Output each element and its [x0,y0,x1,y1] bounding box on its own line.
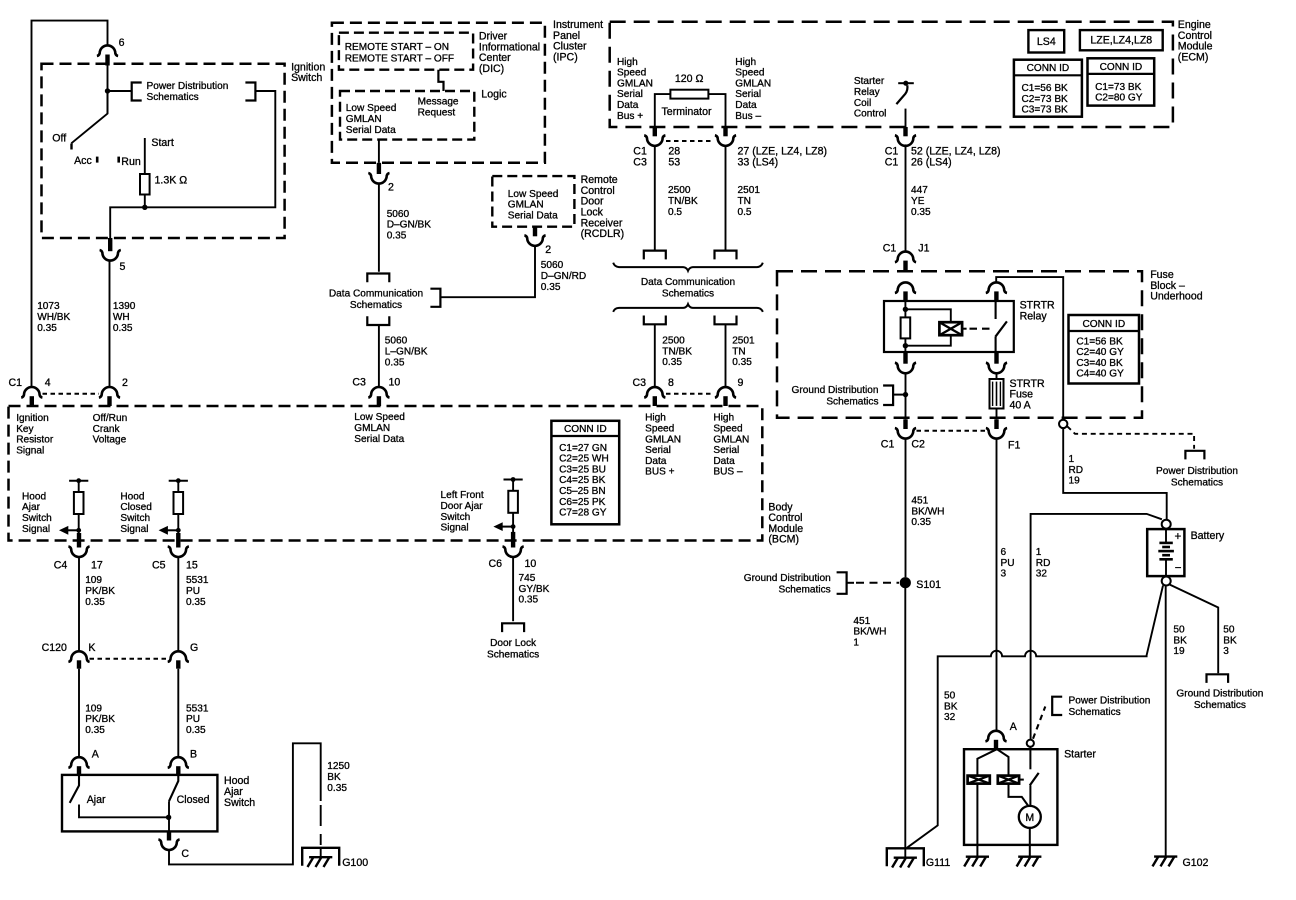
svg-text:Ground Distribution: Ground Distribution [792,385,879,396]
wire battery negative to starter rail with hops [907,586,1163,848]
wire label 50 BK 19 [1173,624,1187,657]
svg-text:G111: G111 [926,857,950,869]
svg-text:F1: F1 [1008,440,1020,452]
svg-text:Hood: Hood [22,491,46,502]
message request label [418,97,459,119]
svg-text:Hood: Hood [120,491,144,502]
svg-text:447: 447 [911,185,928,196]
wire 109 PK/BK upper segment [78,558,80,652]
ignition key resistor signal label [16,413,54,456]
svg-text:0.35: 0.35 [385,357,405,368]
svg-text:32: 32 [1036,569,1048,580]
svg-text:Battery: Battery [1191,530,1225,542]
hood ajar switch signal pull-up resistor and arrow [22,478,88,544]
connector C6 pin 10 (BCM bottom) [488,532,536,570]
svg-text:Schematics: Schematics [662,289,714,300]
svg-text:0.35: 0.35 [519,595,539,606]
connector pin C (hood ajar switch) [158,831,189,860]
svg-text:3: 3 [1001,569,1007,580]
svg-text:4: 4 [45,377,51,389]
svg-text:BK/WH: BK/WH [853,627,886,638]
battery negative terminal circle [1162,577,1171,586]
svg-text:5060: 5060 [385,336,408,347]
svg-text:C3: C3 [633,157,647,169]
svg-text:0.35: 0.35 [387,230,407,241]
svg-text:Starter: Starter [1064,748,1096,760]
ground distribution schematics label (50 BK 3) [1176,689,1263,712]
svg-text:High: High [713,413,734,424]
engine control module dashed box [610,22,1173,127]
svg-text:CONN ID: CONN ID [1100,62,1143,73]
connector pin 9 (BCM high speed -) [715,377,744,406]
relay mechanical link dashed [970,328,992,330]
svg-text:(RCDLR): (RCDLR) [581,228,625,240]
connector C5 pin 15 (BCM bottom) [152,533,198,571]
svg-text:C2=73 BK: C2=73 BK [1022,94,1069,105]
svg-text:A: A [92,749,100,761]
wire label 2501 TN 0.35 [732,335,755,368]
wire 451 BK/WH lower segment to G111 [904,588,906,848]
connector pin 5 (ignition switch) [100,238,126,273]
high speed GMLAN serial data bus - label (ECM) [735,57,771,122]
svg-text:GY/BK: GY/BK [519,584,550,595]
connector C3 pin 8 (BCM high speed +) [632,377,674,406]
svg-text:GMLAN: GMLAN [617,78,653,89]
starter case ground (motor) [1017,857,1042,867]
svg-text:Door Lock: Door Lock [490,638,537,649]
fuse block bottom connector dashed link [917,430,987,432]
wire 5060 L-GN/BK [378,325,380,387]
svg-text:GMLAN: GMLAN [354,423,390,434]
high speed GMLAN serial data BUS + label (BCM) [645,413,681,478]
svg-text:Switch: Switch [120,513,150,524]
svg-text:0.5: 0.5 [738,207,752,218]
svg-text:Voltage: Voltage [93,435,127,446]
wire label 1390 WH 0.35 [113,301,136,334]
svg-text:53: 53 [668,157,680,169]
wire label 109 PK/BK 0.35 (lower) [85,703,115,736]
Run contact tick [117,156,140,168]
svg-text:Signal: Signal [120,524,148,535]
svg-text:C6=25 PK: C6=25 PK [559,497,606,508]
svg-text:BK/WH: BK/WH [911,506,944,517]
svg-text:PU: PU [186,586,200,597]
svg-text:C1: C1 [9,377,23,389]
svg-text:Closed: Closed [120,502,151,513]
svg-text:Closed: Closed [177,794,210,806]
svg-text:GMLAN: GMLAN [508,200,544,211]
svg-text:RD: RD [1036,558,1051,569]
connector C4 pin 17 (BCM bottom) [54,533,103,571]
driver informational center dashed box [339,33,473,70]
svg-text:PK/BK: PK/BK [85,586,115,597]
ground G100 [302,848,368,869]
svg-text:Key: Key [16,424,34,435]
svg-text:451: 451 [853,616,870,627]
wire 2500 TN/BK 0.5 segment [654,147,656,251]
off/run crank voltage label [93,413,128,446]
wire 1 RD 32 from battery positive [1031,514,1162,740]
Logic label [481,88,507,100]
terminator resistor 120 ohm [655,73,726,127]
wire junction to power distribution bracket [108,90,132,92]
wire 50 BK 3 branch [1170,585,1229,683]
svg-text:Run: Run [121,156,141,168]
svg-text:Starter: Starter [854,76,885,87]
svg-text:6: 6 [119,37,125,49]
wire 2501 TN 0.5 segment [725,147,727,251]
wire label 5060 D-GN/BK 0.35 [387,209,432,242]
wire from battery feed to ignition switch pin 6 [32,21,108,387]
wire 1390 WH from pin 5 to BCM pin 2 [109,261,111,387]
connector pin A (hood ajar switch) [68,749,99,775]
starter case ground (pull-in coil) [964,857,989,867]
svg-text:0.35: 0.35 [732,357,752,368]
STRTR fuse 40A [990,374,1045,419]
relay feed elbow to right rail [996,277,1063,419]
svg-text:(IPC): (IPC) [553,52,578,64]
svg-text:PU: PU [1001,558,1015,569]
junction node at ignition feed [105,88,110,93]
svg-text:0.35: 0.35 [85,597,105,608]
splice S101 [900,577,941,591]
svg-text:Speed: Speed [617,68,646,79]
node circle on starter B+ wire [1027,740,1034,747]
svg-text:Data Communication: Data Communication [641,277,735,288]
svg-text:C1: C1 [881,438,895,450]
svg-text:3: 3 [1223,646,1229,657]
svg-text:Door Ajar: Door Ajar [441,501,484,512]
connector C1 pin 52/26 (ECM starter relay control) [885,127,1001,169]
svg-text:50: 50 [1173,624,1185,635]
wire label 451 BK/WH 0.35 [911,496,944,529]
hood ajar switch contact Closed [169,775,210,832]
svg-text:BK: BK [327,772,341,783]
svg-text:−: − [1175,561,1182,574]
low speed GMLAN serial data label (RCDLR) [508,189,559,222]
connector pin 2 (BCM) [99,377,128,406]
svg-text:1073: 1073 [37,301,60,312]
svg-text:TN/BK: TN/BK [668,196,698,207]
svg-text:G: G [190,642,198,654]
svg-text:D–GN/RD: D–GN/RD [541,271,586,282]
svg-text:Switch: Switch [441,512,471,523]
svg-text:C5: C5 [152,559,166,571]
svg-text:32: 32 [944,712,956,723]
svg-text:5060: 5060 [387,209,410,220]
connector pin B (hood ajar switch) [168,749,197,775]
svg-text:Coil: Coil [854,98,871,109]
svg-text:Off: Off [52,132,66,144]
BCM label [768,501,803,545]
svg-text:5060: 5060 [541,260,564,271]
svg-text:Low Speed: Low Speed [346,103,397,114]
junction node below 1.3K resistor [142,205,147,210]
battery positive terminal circle [1162,520,1171,529]
ECM connector dashed link [666,140,714,142]
svg-text:Data: Data [713,456,735,467]
svg-text:TN: TN [738,196,751,207]
wire 5060 D-GN/BK [378,184,380,271]
connector pin 2 (RCDLR) [524,227,551,256]
high speed GMLAN serial data bus + label (ECM) [617,57,653,122]
svg-text:C3=25 BU: C3=25 BU [559,464,606,475]
connector C1/C2 (fuse block bottom) [881,419,925,450]
LS4 box [1028,30,1064,52]
resistor 1.3K ohm (ignition key resistor) [140,174,187,207]
svg-text:Ground Distribution: Ground Distribution [1176,689,1263,700]
connector C1 pin J1 [883,242,930,271]
wire label 2500 TN/BK 0.35 [662,335,692,368]
svg-text:G102: G102 [1183,857,1209,869]
svg-text:(BCM): (BCM) [768,534,799,546]
svg-text:10: 10 [389,377,401,389]
svg-text:Signal: Signal [441,523,469,534]
svg-text:WH: WH [113,312,130,323]
svg-text:(ECM): (ECM) [1178,52,1209,64]
svg-text:BK: BK [1173,635,1187,646]
left front door ajar switch signal pull-up resistor and arrow [441,477,523,540]
junction node in hood ajar switch [166,815,171,820]
svg-text:TN/BK: TN/BK [662,346,692,357]
svg-text:0.35: 0.35 [327,783,347,794]
svg-text:2500: 2500 [662,335,685,346]
power distribution schematics reference brackets (ignition) [132,81,256,103]
svg-text:RD: RD [1069,465,1084,476]
svg-text:Ignition: Ignition [16,413,49,424]
ground distribution schematics reference (fuse block) [792,385,909,408]
wire label 5531 PU 0.35 (upper) [186,575,209,608]
starter relay coil control label [854,76,887,119]
svg-text:(DIC): (DIC) [479,63,504,75]
svg-text:CONN ID: CONN ID [564,424,607,435]
connector F1 (fuse block bottom) [986,419,1021,451]
svg-text:C4=25 BK: C4=25 BK [559,475,606,486]
wire label 2501 TN 0.5 [738,185,761,218]
svg-text:Power Distribution: Power Distribution [147,81,229,92]
wire label 2500 TN/BK 0.5 [668,185,698,218]
remote control door lock receiver dashed box [492,176,574,227]
svg-text:109: 109 [85,703,102,714]
svg-text:C2=40 GY: C2=40 GY [1076,347,1124,358]
wire label 1073 WH/BK 0.35 [37,301,70,334]
svg-text:C3: C3 [632,377,646,389]
STRTR relay box [884,301,1014,352]
wire 5060 D-GN/RD [440,247,535,298]
wire from pin C to ground G100 route [169,743,321,864]
svg-text:19: 19 [1069,476,1081,487]
svg-text:C2: C2 [911,438,925,450]
svg-text:High: High [735,57,756,68]
svg-text:Start: Start [151,137,173,149]
fuse block underhood dashed box [777,271,1142,418]
svg-text:GMLAN: GMLAN [735,78,771,89]
svg-text:1.3K Ω: 1.3K Ω [155,174,188,186]
svg-text:2501: 2501 [738,185,761,196]
connector C120 dashed link [90,658,168,660]
svg-text:50: 50 [944,690,956,701]
svg-text:Acc: Acc [74,155,92,167]
svg-text:High: High [617,57,638,68]
svg-text:GMLAN: GMLAN [645,434,681,445]
wire 745 GY/BK [512,558,514,622]
svg-text:GMLAN: GMLAN [713,434,749,445]
ECM CONN ID table (LZE) [1088,58,1155,105]
power distribution dotted branch [1067,426,1238,488]
svg-text:0.35: 0.35 [911,517,931,528]
svg-text:8: 8 [668,377,674,389]
svg-text:5531: 5531 [186,703,209,714]
wire label 451 BK/WH 1 [853,616,886,649]
svg-text:451: 451 [911,496,928,507]
svg-text:C3=40 BK: C3=40 BK [1076,358,1123,369]
svg-text:C1=56 BK: C1=56 BK [1076,336,1123,347]
wire 6 PU 3 from F1 [996,439,998,731]
svg-text:REMOTE START – ON: REMOTE START – ON [345,42,449,53]
svg-text:1: 1 [1036,547,1042,558]
wire 2500 TN/BK 0.35 segment [654,324,656,387]
svg-text:CONN ID: CONN ID [1027,63,1070,74]
svg-text:2: 2 [545,244,551,256]
svg-text:TN: TN [732,346,745,357]
wire 1250 BK dashed segment [320,805,322,845]
connector pin 2 (IPC) [368,140,394,194]
DIC label [479,31,540,75]
relay coil input pin (fuse block) [895,282,916,301]
svg-text:10: 10 [525,558,537,570]
svg-text:Schematics: Schematics [350,300,402,311]
relay output pin (to ground distribution) [895,352,916,373]
starter solenoid hold-in coil [998,776,1024,784]
low speed GMLAN serial data label (IPC) [346,103,397,136]
wire motor to case ground [1029,828,1031,857]
battery [1147,529,1225,576]
wire 2501 TN 0.35 segment [725,324,727,387]
svg-text:Data: Data [645,456,667,467]
high speed GMLAN serial data BUS - label (BCM) [713,413,749,478]
connector pin 6 (ignition switch) [97,37,125,65]
svg-text:Left Front: Left Front [441,490,484,501]
svg-text:0.35: 0.35 [662,357,682,368]
svg-text:40 A: 40 A [1010,400,1032,412]
wire label 1 RD 32 [1036,547,1051,580]
svg-text:K: K [88,642,95,654]
wire 50 BK 19 battery negative to G102 [1165,586,1167,857]
svg-text:C4=40 GY: C4=40 GY [1076,369,1124,380]
svg-text:50: 50 [1223,624,1235,635]
svg-text:Signal: Signal [16,445,44,456]
connector C120 pin K [42,642,96,669]
svg-text:Serial: Serial [617,89,643,100]
svg-text:C6: C6 [488,558,502,570]
svg-text:Ajar: Ajar [22,502,41,513]
svg-text:Logic: Logic [481,88,507,100]
STRTR relay label [1020,300,1055,323]
svg-text:0.35: 0.35 [85,725,105,736]
svg-text:Relay: Relay [854,87,881,98]
svg-text:0.5: 0.5 [668,207,682,218]
svg-text:L–GN/BK: L–GN/BK [385,346,428,357]
wire hold-in coil to motor [1009,784,1029,806]
svg-text:C7=28 GY: C7=28 GY [559,508,607,519]
svg-text:S101: S101 [916,579,941,591]
svg-text:M: M [1025,812,1034,824]
svg-text:Off/Run: Off/Run [93,413,128,424]
svg-text:Data Communication: Data Communication [329,289,423,300]
data communication schematics bracket (RCDLR wire) [430,289,440,307]
svg-text:Terminator: Terminator [662,106,713,118]
svg-text:Serial: Serial [735,89,761,100]
svg-text:Schematics: Schematics [1194,700,1246,711]
svg-text:Serial Data: Serial Data [346,125,396,136]
svg-text:Request: Request [418,107,456,118]
svg-text:5: 5 [120,261,126,273]
wire label 1250 BK 0.35 [327,761,350,794]
svg-text:Signal: Signal [22,524,50,535]
starter solenoid pull-in coil [968,776,990,784]
svg-text:C3: C3 [352,377,366,389]
BCM connector dashed link (8/9) [666,393,714,395]
svg-text:17: 17 [91,559,103,571]
svg-text:BUS –: BUS – [713,467,743,478]
wire label 745 GY/BK 0.35 [519,573,550,606]
svg-text:High: High [645,413,666,424]
wire 5531 PU lower segment [177,669,179,758]
svg-text:Ajar: Ajar [87,794,106,806]
svg-text:Schematics: Schematics [1069,707,1121,718]
wire from right bracket down to resistor output node [110,91,275,238]
connector half dashed link C1 [43,393,100,395]
svg-text:Power Distribution: Power Distribution [1156,466,1238,477]
svg-text:Schematics: Schematics [1171,478,1223,489]
svg-text:C1: C1 [885,157,899,169]
wire label 50 BK 32 [944,690,958,723]
connector C3 pin 10 (BCM) [352,377,400,406]
RCDLR label [581,174,625,240]
svg-text:0.35: 0.35 [113,323,133,334]
svg-text:Serial: Serial [645,445,671,456]
svg-text:Low Speed: Low Speed [354,412,405,423]
BCM CONN ID table [551,421,619,525]
svg-text:LS4: LS4 [1037,36,1056,48]
svg-text:PK/BK: PK/BK [85,714,115,725]
hood ajar switch label [224,775,255,809]
svg-text:Data: Data [735,100,757,111]
svg-text:Schematics: Schematics [147,92,199,103]
link DIC to Logic [438,70,443,91]
svg-text:2: 2 [122,377,128,389]
fuse block CONN ID table [1069,315,1140,384]
wire label 5060 L-GN/BK 0.35 [385,336,428,369]
wire relay output to fuse block bottom [905,374,907,419]
svg-text:C4: C4 [54,559,68,571]
connector pin 27/33 (ECM) [715,127,827,169]
svg-text:BK: BK [1223,635,1237,646]
svg-text:0.35: 0.35 [541,282,561,293]
relay switch contact [995,301,1007,352]
connector C1/C3 pin 28/53 (ECM) [633,127,680,169]
svg-text:B: B [190,749,197,761]
wire label 50 BK 3 [1223,624,1237,657]
wire 109 PK/BK lower segment [78,669,80,758]
svg-text:Serial Data: Serial Data [508,210,558,221]
node with open circle on right rail [1059,420,1067,428]
svg-text:33 (LS4): 33 (LS4) [738,157,779,169]
svg-text:C1=73 BK: C1=73 BK [1095,82,1142,93]
svg-text:GMLAN: GMLAN [346,114,382,125]
Start contact wire [145,137,174,174]
connector C1 pin 4 (BCM) [9,377,51,406]
